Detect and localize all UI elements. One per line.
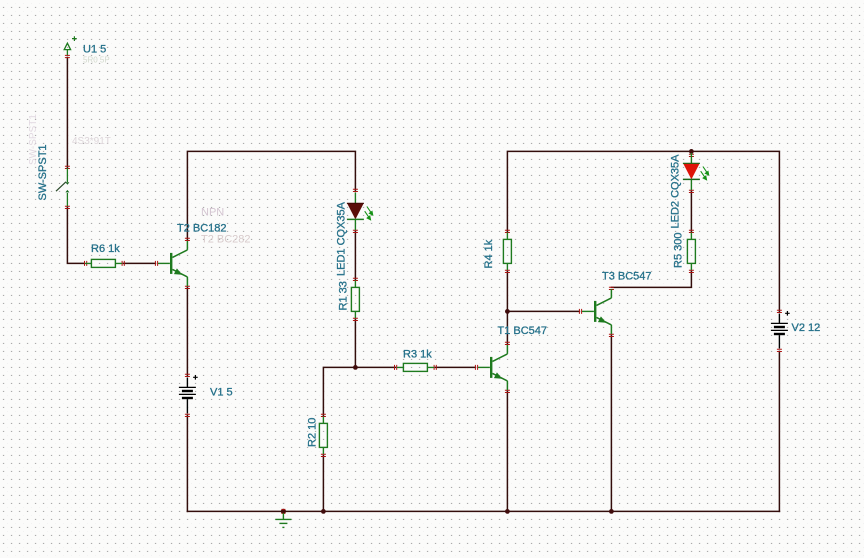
- transistor T3 BC547: [582, 289, 611, 334]
- LED1 CQX35A (dark red / off): [347, 193, 373, 231]
- pin tick ground: [281, 509, 285, 513]
- pin tick V1 top: [185, 374, 190, 376]
- pin tick T2 base: [155, 261, 157, 266]
- wire node A to R2: [323, 367, 355, 415]
- pin tick LED1 bottom: [353, 230, 358, 232]
- pin tick switch top: [65, 166, 70, 168]
- wire T1 collector to node B: [506, 311, 508, 343]
- wire T1 emitter to ground rail: [506, 391, 508, 511]
- transistor T1 BC547: [478, 345, 507, 390]
- svg-text:NPN: NPN: [201, 207, 224, 219]
- junction ground rail at ground: [281, 509, 286, 514]
- pin tick U1: [65, 55, 70, 57]
- pin tick R4 top: [505, 230, 510, 232]
- svg-text:R3 1k: R3 1k: [403, 349, 432, 361]
- pin tick LED2 bottom: [689, 190, 694, 192]
- wire R4 to node B: [506, 271, 508, 311]
- transistor T2 BC182: [158, 241, 187, 286]
- plus sign of U1: [72, 36, 77, 41]
- pin tick T3 emitter: [609, 334, 614, 336]
- svg-text:T1 BC547: T1 BC547: [498, 325, 548, 337]
- wire U1 to switch: [66, 57, 68, 167]
- wire LED1 to R1: [354, 231, 356, 279]
- svg-text:5R0 5P: 5R0 5P: [83, 56, 110, 65]
- svg-text:U1 5: U1 5: [83, 44, 106, 56]
- pin tick T2 collector: [185, 238, 190, 240]
- pin tick V2 bottom: [777, 349, 782, 351]
- resistor R5: [687, 233, 695, 271]
- svg-text:R5 300: R5 300: [673, 233, 685, 268]
- svg-text:R1 33: R1 33: [338, 281, 350, 310]
- pin tick T2 emitter: [185, 286, 190, 288]
- svg-text:4S3*91T: 4S3*91T: [72, 136, 111, 147]
- pin tick LED1 top: [353, 189, 358, 191]
- power terminal U1 (arrow up): [64, 43, 70, 55]
- resistor R2: [319, 417, 327, 455]
- pin tick R4 bottom: [505, 270, 510, 272]
- svg-text:T3 BC547: T3 BC547: [602, 271, 652, 283]
- node B junction: [505, 309, 510, 314]
- pin tick R1 bottom: [353, 318, 358, 320]
- wire node A to R3: [355, 366, 395, 368]
- wire node B to T3 base: [507, 310, 579, 312]
- pin tick R5 bottom: [689, 270, 694, 272]
- node A junction: [353, 365, 358, 370]
- svg-text:T2 BC282: T2 BC282: [201, 234, 251, 246]
- wire R6 to T2 base: [123, 262, 155, 264]
- wire V1 to ground rail: [186, 415, 188, 511]
- pin tick T1 base: [475, 365, 477, 370]
- pin tick T1 emitter: [505, 390, 510, 392]
- pin tick T3 collector: [609, 287, 614, 289]
- wire R1 to node A: [354, 319, 356, 367]
- svg-text:LED1 CQX35A: LED1 CQX35A: [336, 201, 348, 276]
- LED2 CQX35A (bright red / on): [683, 153, 709, 190]
- svg-text:LED2 CQX35A: LED2 CQX35A: [670, 154, 682, 229]
- wire R3 to T1 base: [435, 366, 475, 368]
- plus sign of V1: [193, 375, 198, 380]
- pin tick R2 top: [321, 414, 326, 416]
- LED1 light arrows: [365, 207, 373, 220]
- pin tick R6 left: [85, 261, 87, 266]
- resistor R6: [85, 259, 122, 267]
- pin tick R6 right: [122, 261, 124, 266]
- pin tick V1 bottom: [185, 414, 190, 416]
- pin tick R3 left: [395, 365, 397, 370]
- battery V2: [771, 314, 788, 349]
- pin tick V2 top: [777, 310, 782, 312]
- wire ground rail: [187, 510, 779, 512]
- junction ground rail at R2: [321, 509, 326, 514]
- resistor R4: [503, 233, 511, 271]
- svg-text:R6 1k: R6 1k: [91, 243, 120, 255]
- junction ground rail at T1 emitter: [505, 509, 510, 514]
- switch lever: [56, 182, 66, 191]
- plus sign of V2: [785, 311, 790, 316]
- wire R4 to top rail to V2: [507, 151, 779, 311]
- battery V1: [179, 378, 196, 414]
- switch SW-SPST1: [66, 168, 68, 206]
- svg-text:SW-SPST1: SW-SPST1: [28, 114, 39, 165]
- junction ground rail at T3 emitter: [609, 509, 614, 514]
- pin tick T1 collector: [505, 342, 510, 344]
- pin tick R2 bottom: [321, 454, 326, 456]
- LED2 light arrows: [701, 167, 709, 180]
- resistor R3: [397, 363, 434, 371]
- pin tick switch bottom: [65, 206, 70, 208]
- pin tick T3 base: [579, 309, 581, 314]
- wire R2 to ground rail: [322, 455, 324, 511]
- pin tick R1 top: [353, 278, 358, 280]
- ground: [275, 513, 291, 527]
- wire T3 collector to R5: [611, 271, 691, 287]
- junction LED2 top rail: [689, 149, 694, 154]
- pin tick LED2 top: [689, 154, 694, 156]
- pin tick R3 right: [434, 365, 436, 370]
- wire T2 emitter to V1: [186, 287, 188, 375]
- svg-text:R2 10: R2 10: [307, 418, 319, 447]
- wire V2 to ground rail: [778, 351, 780, 511]
- wire T2 collector to top rail to LED1: [187, 151, 355, 239]
- resistor R1: [351, 281, 359, 319]
- pin tick R5 top: [689, 230, 694, 232]
- wire LED2 to R5: [690, 191, 692, 231]
- svg-text:V1 5: V1 5: [210, 387, 233, 399]
- wire T3 emitter to ground rail: [610, 335, 612, 511]
- wire switch to R6: [67, 207, 83, 263]
- svg-text:V2 12: V2 12: [792, 322, 821, 334]
- svg-text:R4 1k: R4 1k: [483, 239, 495, 268]
